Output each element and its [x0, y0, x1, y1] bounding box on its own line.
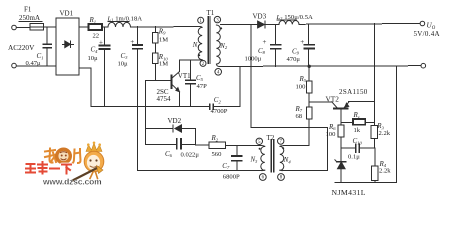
transistor VT1: [171, 60, 179, 107]
svg-text:R5: R5: [299, 75, 307, 83]
svg-text:+: +: [263, 38, 267, 46]
pin 1: [198, 17, 204, 23]
capacitor C10: [341, 144, 375, 152]
wire: [265, 23, 279, 25]
resistor R9: [152, 27, 158, 43]
labels primary: [8, 6, 291, 181]
wire: [299, 23, 420, 26]
wire: [131, 26, 201, 28]
svg-text:560: 560: [212, 151, 223, 158]
node dot N1 polarity: [198, 54, 200, 56]
svg-text:470μ: 470μ: [287, 56, 301, 63]
svg-text:C8: C8: [258, 47, 266, 55]
wire: [145, 81, 147, 145]
inductor L2: [279, 20, 299, 24]
capacitor C6: [146, 139, 196, 149]
capacitor C5: [186, 60, 195, 107]
wire: [308, 93, 310, 107]
pin 2: [200, 60, 206, 66]
terminal Uo minus: [421, 63, 426, 68]
capacitor C9: [304, 24, 314, 67]
transformer T1 winding N2: [216, 25, 220, 66]
svg-text:www.dzsc.com: www.dzsc.com: [42, 177, 102, 187]
transistor VT2: [332, 102, 349, 125]
svg-text:C3: C3: [121, 52, 129, 60]
svg-text:0.022μ: 0.022μ: [181, 152, 200, 159]
svg-text:2.2k: 2.2k: [379, 168, 391, 175]
capacitor C8: [271, 24, 281, 66]
transformer T2 winding N4: [280, 146, 284, 171]
svg-text:VD2: VD2: [168, 117, 182, 125]
transformer T2 winding N3: [261, 146, 265, 171]
wire: [396, 66, 398, 183]
labels secondary: [245, 13, 440, 198]
svg-text:1000μ: 1000μ: [245, 55, 262, 62]
terminal AC input N: [12, 63, 17, 68]
svg-text:10μ: 10μ: [88, 55, 99, 62]
capacitor C7: [232, 145, 242, 170]
pin 3: [214, 16, 220, 22]
wire: [349, 101, 375, 103]
bridge rectifier VD1: [56, 18, 79, 75]
diode VD3: [258, 21, 265, 28]
node junction: [308, 65, 311, 68]
resistor R6: [338, 125, 344, 148]
svg-text:1M: 1M: [159, 61, 168, 68]
svg-text:100: 100: [296, 83, 307, 90]
wire: [251, 24, 328, 127]
wire: [138, 170, 262, 172]
svg-text:R6: R6: [328, 123, 336, 131]
svg-text:N4: N4: [283, 157, 292, 164]
resistor R10: [152, 53, 158, 81]
svg-text:4754: 4754: [157, 95, 172, 103]
svg-text:4700P: 4700P: [211, 108, 228, 115]
pin 5: [256, 138, 262, 144]
svg-text:68: 68: [296, 113, 303, 120]
transformer T2 core: [271, 140, 274, 173]
wire: [335, 182, 397, 184]
wire: [195, 129, 197, 145]
svg-text:1M: 1M: [159, 37, 168, 44]
pin 4: [215, 69, 222, 76]
svg-text:C7: C7: [222, 162, 230, 170]
resistor R7: [306, 107, 312, 146]
svg-text:250mA: 250mA: [19, 14, 40, 22]
svg-text:VT1: VT1: [178, 72, 191, 80]
wire: [16, 27, 30, 29]
svg-text:Rx: Rx: [353, 111, 360, 119]
svg-text:R2: R2: [211, 134, 219, 142]
svg-text:100: 100: [326, 131, 337, 138]
transformer T1 core: [208, 17, 210, 64]
svg-text:C6: C6: [165, 150, 173, 158]
svg-text:VT2: VT2: [326, 94, 340, 103]
svg-text:C10: C10: [353, 137, 363, 145]
wire: [226, 144, 262, 146]
svg-text:1k: 1k: [354, 127, 361, 134]
svg-text:N2: N2: [219, 43, 228, 50]
wire: [79, 68, 209, 107]
resistor R3: [371, 126, 377, 149]
shunt regulator NJM431L: [335, 148, 346, 182]
svg-text:T2: T2: [267, 134, 275, 142]
wire: [179, 59, 202, 61]
pin 6: [259, 174, 266, 181]
svg-text:+: +: [130, 38, 134, 46]
svg-text:C2: C2: [214, 96, 222, 104]
svg-text:N3: N3: [250, 157, 259, 164]
wire secondary return rail: [219, 65, 421, 68]
wire secondary top rail: [221, 24, 258, 26]
svg-text:10μ: 10μ: [118, 60, 129, 67]
wire: [102, 26, 108, 28]
capacitor C1: [43, 27, 51, 66]
resistor Rx: [341, 119, 375, 125]
svg-text:0.47μ: 0.47μ: [26, 60, 42, 67]
wire: [137, 49, 139, 171]
capacitor C2: [210, 104, 214, 109]
svg-text:C9: C9: [292, 47, 300, 55]
wire: [196, 144, 210, 146]
capacitor C3: [133, 27, 142, 49]
terminal AC input L: [12, 25, 17, 30]
resistor R1: [89, 24, 103, 30]
svg-text:0.1μ: 0.1μ: [348, 153, 360, 160]
wire: [79, 26, 89, 28]
terminal Uo plus: [420, 21, 425, 26]
diode VD2: [146, 125, 196, 132]
resistor R2: [209, 142, 226, 148]
node dot N3 polarity: [259, 148, 261, 150]
svg-text:+: +: [300, 38, 304, 46]
svg-text:F1: F1: [24, 6, 32, 14]
wire: [309, 101, 332, 103]
transformer T1 winding N1: [198, 27, 202, 60]
resistor R5: [306, 66, 312, 93]
svg-text:R9: R9: [158, 27, 166, 35]
wire: [374, 24, 376, 126]
fuse F1: [30, 24, 44, 30]
svg-text:47P: 47P: [197, 83, 208, 90]
svg-text:2.2k: 2.2k: [379, 130, 391, 137]
svg-text:N1: N1: [192, 42, 200, 49]
resistor R4: [372, 148, 378, 182]
svg-text:C4: C4: [91, 46, 99, 54]
inductor L1: [108, 22, 131, 27]
svg-text:6800P: 6800P: [223, 173, 240, 180]
wire: [146, 80, 171, 82]
node dot N2 polarity: [220, 27, 222, 29]
wire: [282, 128, 327, 171]
watermark logo: [26, 142, 104, 187]
pin number digits: [199, 18, 282, 180]
svg-text:+: +: [99, 39, 103, 47]
capacitor C4: [100, 27, 110, 107]
svg-text:NJM431L: NJM431L: [332, 188, 366, 197]
svg-text:C5: C5: [196, 74, 204, 82]
svg-text:R1: R1: [89, 16, 97, 24]
node dot N4 polarity: [282, 147, 284, 149]
wire: [16, 65, 56, 67]
wire: [284, 145, 309, 147]
svg-text:2SA1150: 2SA1150: [339, 88, 368, 96]
svg-text:T1: T1: [207, 9, 215, 17]
wire: [44, 26, 57, 28]
pin 8: [278, 174, 285, 181]
wire: [213, 66, 240, 106]
svg-text:5V/0.4A: 5V/0.4A: [414, 30, 440, 38]
svg-text:VD1: VD1: [60, 9, 74, 17]
wire: [154, 43, 156, 53]
pin 7: [278, 138, 284, 144]
svg-text:AC220V: AC220V: [8, 43, 35, 52]
svg-text:VD3: VD3: [253, 13, 267, 21]
